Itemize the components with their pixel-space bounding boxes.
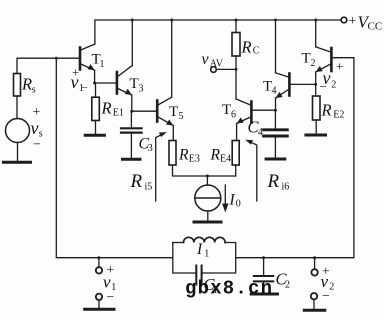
wire: Rs to vs bbox=[16, 96, 18, 119]
capacitor C3 bbox=[121, 111, 142, 158]
wire: vs to ground bbox=[17, 143, 19, 162]
svg-text:v: v bbox=[71, 72, 79, 92]
wire: RE4 bottom bbox=[235, 165, 237, 176]
arrow Ri5 bbox=[156, 132, 167, 201]
terminal v1 plus bbox=[98, 258, 100, 268]
transistor T5 bbox=[157, 97, 173, 125]
svg-text:E2: E2 bbox=[333, 110, 344, 121]
resistor RE2 bbox=[313, 96, 321, 120]
wire: T4 base to T2 emitter bbox=[289, 83, 315, 85]
resistor RE3 bbox=[169, 141, 176, 166]
capacitor C4 bbox=[264, 110, 288, 157]
svg-text:s: s bbox=[32, 85, 36, 96]
svg-text:4: 4 bbox=[272, 86, 277, 97]
wire: T2 emitter to T4 base and RE2 bbox=[315, 72, 317, 96]
terminal +VCC bbox=[341, 17, 347, 23]
svg-text:CC: CC bbox=[368, 21, 383, 33]
svg-text:2: 2 bbox=[329, 282, 334, 293]
svg-text:T: T bbox=[169, 104, 178, 120]
wire: T5 emitter to RE3 bbox=[172, 126, 174, 141]
ground (C2) bbox=[251, 293, 277, 296]
wire: T3 collector riser bbox=[131, 20, 133, 66]
wire: left vertical to bottom (v1 net) bbox=[56, 58, 173, 258]
wire: input top from Rs node to T1 base bbox=[17, 58, 79, 73]
terminal v2 minus bbox=[311, 293, 317, 299]
svg-text:AV: AV bbox=[210, 59, 224, 70]
svg-text:R: R bbox=[130, 171, 143, 192]
svg-text:E3: E3 bbox=[189, 154, 200, 165]
wire: tank right edge junction bbox=[235, 257, 237, 259]
svg-text:−: − bbox=[33, 138, 41, 153]
wire: tank left edge bbox=[173, 243, 196, 274]
svg-text:R: R bbox=[267, 171, 280, 192]
wire: +VCC top rail bbox=[95, 20, 341, 44]
svg-text:v: v bbox=[31, 118, 39, 138]
ground (RE1) bbox=[85, 134, 104, 137]
svg-text:R: R bbox=[241, 38, 252, 57]
inductor I1 bbox=[184, 237, 226, 242]
wire: T2 collector riser bbox=[315, 20, 317, 47]
transistor T3 bbox=[117, 66, 132, 96]
resistor RE4 bbox=[232, 141, 239, 166]
svg-text:R: R bbox=[210, 147, 221, 164]
svg-text:T: T bbox=[130, 76, 139, 92]
svg-text:1: 1 bbox=[100, 59, 105, 70]
wire: RE3 bottom to I0 node bbox=[173, 165, 236, 176]
wire: T2 base to right feedback wire bbox=[236, 58, 354, 258]
wire: RE1 to ground bbox=[95, 121, 97, 135]
svg-text:3: 3 bbox=[139, 84, 144, 95]
wire: RC bottom to T6 collector bbox=[235, 56, 237, 99]
ground (v2) bbox=[304, 309, 325, 312]
wire: T6 base to T4 emitter bbox=[251, 109, 275, 111]
ground (I0) bbox=[194, 221, 221, 224]
wire: T5 collector riser bbox=[171, 20, 173, 97]
ground (RE2) bbox=[306, 134, 326, 137]
svg-text:−: − bbox=[322, 288, 330, 303]
svg-text:R: R bbox=[21, 75, 32, 94]
transistor T2 bbox=[316, 47, 332, 72]
resistor RE1 bbox=[92, 97, 100, 120]
arrow Ri6 bbox=[245, 140, 257, 201]
svg-text:1: 1 bbox=[204, 249, 209, 260]
svg-text:I: I bbox=[229, 192, 236, 209]
ground (v1) bbox=[85, 308, 114, 311]
svg-text:i5: i5 bbox=[145, 182, 153, 193]
ground (C3) bbox=[123, 158, 141, 161]
svg-text:i6: i6 bbox=[282, 182, 290, 193]
svg-text:5: 5 bbox=[179, 111, 184, 122]
svg-text:−: − bbox=[320, 79, 327, 94]
svg-text:+: + bbox=[349, 14, 357, 29]
wire: T6 emitter to RE4 bbox=[236, 124, 238, 141]
LC tank loop bbox=[173, 237, 236, 284]
resistor RC bbox=[232, 33, 240, 57]
source vs bbox=[6, 119, 30, 143]
ground (C4) bbox=[266, 158, 285, 161]
transistor T4 bbox=[276, 73, 290, 98]
svg-text:I: I bbox=[196, 241, 203, 258]
arrow I0 direction bbox=[222, 185, 228, 213]
svg-text:2: 2 bbox=[311, 58, 316, 69]
transistor T1 bbox=[80, 44, 95, 70]
wire: node to RE1 bbox=[95, 83, 97, 97]
svg-text:R: R bbox=[321, 101, 332, 120]
svg-text:E4: E4 bbox=[220, 154, 231, 165]
wire: vAV to RC lead bbox=[216, 68, 236, 70]
wire: T4 collector riser bbox=[275, 20, 277, 73]
wire: rail to RC bbox=[235, 20, 237, 33]
terminal v1 minus bbox=[96, 294, 102, 300]
svg-text:R: R bbox=[178, 147, 189, 164]
wire: T3 emitter to T5 base bbox=[132, 95, 157, 111]
wire: tank top to coil bbox=[173, 242, 184, 244]
svg-text:T: T bbox=[302, 51, 311, 67]
current source I0 bbox=[195, 176, 221, 221]
ground (vs) bbox=[4, 161, 31, 164]
svg-text:2: 2 bbox=[285, 280, 290, 291]
resistor Rs bbox=[14, 74, 21, 97]
terminal v2 plus bbox=[314, 258, 316, 270]
svg-text:6: 6 bbox=[231, 110, 236, 121]
wire: T4 emitter drop bbox=[275, 98, 277, 110]
svg-text:E1: E1 bbox=[113, 108, 124, 119]
svg-text:4: 4 bbox=[258, 127, 263, 138]
svg-text:0: 0 bbox=[236, 199, 241, 210]
capacitor C2 bbox=[254, 258, 273, 293]
wire: T1 emitter drop to RE1 node bbox=[95, 70, 117, 83]
svg-text:C: C bbox=[253, 46, 260, 57]
svg-text:T: T bbox=[222, 102, 231, 118]
wire: coil to tank right bbox=[202, 243, 236, 274]
svg-text:v: v bbox=[202, 51, 210, 68]
capacitor C1 bbox=[195, 266, 197, 285]
svg-text:3: 3 bbox=[148, 143, 153, 154]
transistor T6 bbox=[236, 99, 251, 124]
svg-text:−: − bbox=[107, 289, 115, 304]
svg-text:+: + bbox=[336, 59, 343, 74]
svg-text:R: R bbox=[101, 99, 112, 118]
wire: RE2 to ground bbox=[315, 120, 317, 134]
terminal vAV bbox=[211, 67, 217, 73]
svg-text:−: − bbox=[82, 82, 88, 94]
svg-text:gbx8.cn: gbx8.cn bbox=[185, 278, 273, 300]
svg-text:2: 2 bbox=[331, 80, 336, 91]
